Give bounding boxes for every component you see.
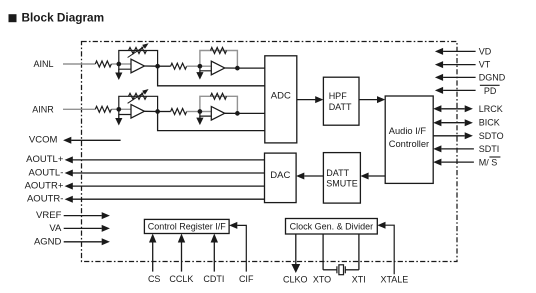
pin BICK wire (433, 119, 473, 126)
wire ADC to HPF (297, 96, 324, 103)
pin AOUTL+ (26, 154, 64, 165)
svg-text:LRCK: LRCK (479, 104, 503, 114)
svg-text:XTI: XTI (352, 274, 366, 284)
svg-text:AOUTR+: AOUTR+ (25, 180, 64, 191)
AINR resistor variable feedback (129, 93, 147, 99)
svg-text:HPF: HPF (329, 91, 348, 101)
pin SDTI wire (433, 145, 474, 152)
AINL op-amp stage2 (211, 61, 224, 75)
AINL wire to resistor2 (158, 65, 171, 67)
pin AOUTL- wire (65, 170, 265, 177)
svg-text:DATT: DATT (329, 102, 352, 112)
pin XTO (313, 274, 331, 284)
AINL wire node to op-amp2 (200, 65, 211, 67)
AINL wire node to op-amp (119, 63, 131, 65)
block HPF DATT label (329, 91, 352, 112)
svg-text:AOUTR-: AOUTR- (27, 194, 63, 205)
pin VD wire (435, 48, 476, 55)
svg-text:CLKO: CLKO (283, 274, 308, 284)
pin XTO wire (322, 234, 324, 270)
pin SDTO (479, 131, 504, 141)
AINR wire node to op-amp2 (200, 111, 211, 113)
AINR wire to resistor2 (158, 111, 171, 113)
pin XTALE wire (377, 222, 394, 275)
svg-text:XTO: XTO (313, 274, 331, 284)
block Audio I/F Controller (385, 96, 433, 183)
pin VT wire (435, 61, 476, 68)
pin VA (49, 223, 62, 234)
AINR wire direct path to ADC (158, 112, 265, 131)
svg-text:AGND: AGND (34, 236, 62, 247)
pin AOUTR- (27, 194, 63, 205)
pin BICK (479, 118, 500, 128)
pin CS wire (149, 234, 156, 272)
svg-text:VCOM: VCOM (29, 135, 58, 146)
AINL wire direct path to ADC (158, 66, 265, 86)
pin PD (active low) (480, 85, 500, 96)
AINR wire op-amp lower input (119, 109, 131, 114)
pin CLKO wire (291, 234, 300, 273)
pin AOUTR- wire (65, 196, 265, 203)
AINL node stage2 out (235, 66, 240, 71)
pin M/S (slave low) (479, 157, 501, 168)
block HPF DATT (323, 77, 359, 125)
AINR wire feedback rail 2 (200, 96, 238, 113)
crystal X1 body (339, 265, 344, 275)
AINL resistor interstage (171, 63, 187, 69)
AINR op-amp stage2 (211, 107, 224, 121)
AINR ground arrow (to VCOM) stage2 (196, 116, 203, 125)
AINL wire op-amp lower input (119, 64, 131, 69)
pin CCLK wire (178, 234, 185, 272)
pin DGND wire (435, 74, 476, 81)
pin SDTI (479, 144, 500, 154)
svg-text:Control Register I/F: Control Register I/F (148, 222, 227, 232)
crystal X1 plates (337, 266, 345, 273)
AINL op-amp stage1 (131, 59, 144, 73)
svg-text:AINR: AINR (32, 104, 54, 114)
svg-text:DATT: DATT (326, 168, 349, 178)
svg-text:Controller: Controller (389, 139, 429, 149)
pin CDTI wire (211, 234, 218, 272)
svg-text:AOUTL+: AOUTL+ (26, 154, 64, 165)
pin VD (479, 46, 492, 56)
pin CCLK (169, 274, 193, 284)
pin VCOM wire+arrow (63, 137, 121, 144)
pin M/S wire (433, 159, 474, 166)
crystal X1 leads (323, 269, 359, 271)
AINL ground arrow (to VCOM) stage2 (196, 71, 203, 80)
AINR wire feedback rail 1 (119, 96, 158, 111)
svg-text:VA: VA (49, 223, 62, 234)
AINR wire to ADC (237, 112, 264, 114)
AINR node stage2 in (198, 109, 203, 114)
AINL wire feedback rail 2 (200, 51, 238, 69)
AINR wire resistor to node (111, 108, 119, 110)
block DATT SMUTE label (326, 168, 358, 188)
block DAC (265, 153, 297, 203)
AINR resistor input (95, 106, 111, 112)
svg-text:Audio I/F: Audio I/F (389, 126, 427, 136)
pin AOUTL+ wire (65, 156, 265, 163)
pin AOUTR+ (25, 180, 64, 191)
AINR node stage1 out (155, 109, 160, 114)
pin CIF wire (229, 222, 246, 272)
pin XTI wire (358, 234, 360, 270)
pin DGND (479, 72, 506, 82)
svg-text:CIF: CIF (239, 274, 254, 284)
pin CDTI (203, 274, 224, 284)
AINL wire resistor to node (111, 63, 119, 65)
chip boundary (dashed) (82, 42, 458, 262)
AINL wire resistor2 to node (187, 65, 200, 67)
AINR wire node to op-amp (119, 108, 131, 110)
svg-text:CCLK: CCLK (169, 274, 193, 284)
block ADC label (271, 91, 291, 102)
AINR resistor interstage (171, 109, 187, 115)
pin XTALE (380, 274, 408, 284)
block Audio I/F Controller label (389, 126, 429, 149)
AINR wire variable resistor arrow (128, 89, 149, 103)
AINL wire feedback rail 1 (119, 51, 158, 67)
pin LRCK (479, 104, 503, 114)
svg-text:VREF: VREF (36, 210, 62, 221)
AINL wire variable resistor arrow (128, 43, 149, 57)
wire HPF to Audio IF (359, 96, 385, 103)
AINR node stage1 in (116, 107, 121, 112)
pin AOUTR+ wire (65, 183, 265, 190)
pin AGND (34, 236, 62, 247)
svg-text:SDTO: SDTO (479, 131, 504, 141)
svg-text:Block Diagram: Block Diagram (22, 11, 105, 25)
AINR wire op-amp1 out (144, 110, 157, 112)
AINR op-amp stage1 (131, 105, 144, 119)
AINR resistor feedback 2 (211, 93, 227, 99)
svg-text:BICK: BICK (479, 118, 500, 128)
block Clock Gen. & Divider label (290, 221, 374, 231)
AINR wire op-amp2 lower input (200, 112, 211, 117)
AINL node stage1 in (116, 62, 121, 67)
pin SDTO wire (433, 132, 473, 139)
block DAC label (270, 170, 290, 181)
svg-text:VT: VT (479, 60, 491, 70)
AINL wire op-amp2 out (225, 67, 238, 69)
AINL wire input lead (63, 63, 95, 65)
AINR wire input lead (63, 108, 95, 110)
AINL resistor input (95, 61, 111, 67)
block Control Register I/F label (148, 222, 227, 232)
wire Audio IF to DATT SMUTE (360, 173, 385, 180)
svg-text:VD: VD (479, 46, 492, 56)
pin AOUTL- (29, 167, 64, 178)
AINR wire op-amp2 out (225, 112, 238, 114)
svg-text:AOUTL-: AOUTL- (29, 167, 64, 178)
pin LRCK wire (433, 105, 473, 112)
pin VA wire (64, 225, 110, 232)
AINR node stage2 out (235, 111, 240, 116)
AINL wire to ADC (237, 67, 264, 69)
pin XTI (352, 274, 366, 284)
AINL node stage2 in (198, 64, 203, 69)
pin VCOM (29, 135, 58, 146)
pin AGND wire (64, 238, 110, 245)
svg-text:DGND: DGND (479, 72, 506, 82)
block ADC (265, 56, 297, 143)
block Control Register I/F (144, 219, 229, 233)
AINR wire resistor2 to node (187, 111, 200, 113)
AINL resistor feedback 2 (211, 48, 227, 54)
pin CS (148, 274, 161, 284)
pin PD wire (435, 87, 476, 94)
svg-text:DAC: DAC (270, 170, 290, 181)
AINR ground arrow (to VCOM) stage1 (115, 115, 122, 126)
title text Block Diagram (22, 11, 105, 25)
pin VREF wire (64, 212, 110, 219)
AINL wire op-amp2 lower input (200, 66, 211, 71)
svg-text:ADC: ADC (271, 91, 291, 102)
pin VT (479, 60, 491, 70)
pin CIF (239, 274, 254, 284)
pin AINL (33, 59, 53, 69)
svg-text:SDTI: SDTI (479, 144, 500, 154)
pin AINR (32, 104, 54, 114)
AINL resistor variable feedback (129, 48, 147, 54)
svg-text:CDTI: CDTI (203, 274, 224, 284)
wire DATT SMUTE to DAC (296, 173, 323, 180)
pin CLKO (283, 274, 308, 284)
pin VREF (36, 210, 62, 221)
AINL wire op-amp1 out (144, 65, 157, 67)
svg-text:CS: CS (148, 274, 161, 284)
svg-text:PD: PD (484, 86, 497, 96)
block Clock Gen. & Divider (286, 219, 378, 235)
title bullet square (9, 14, 17, 22)
svg-text:XTALE: XTALE (380, 274, 408, 284)
block DATT SMUTE (323, 153, 360, 204)
svg-text:M/ S: M/ S (479, 158, 498, 168)
svg-text:AINL: AINL (33, 59, 53, 69)
svg-text:Clock Gen. & Divider: Clock Gen. & Divider (290, 221, 374, 231)
AINL node stage1 out (155, 64, 160, 69)
svg-text:SMUTE: SMUTE (326, 179, 358, 189)
AINL ground arrow (to VCOM) stage1 (115, 69, 122, 80)
